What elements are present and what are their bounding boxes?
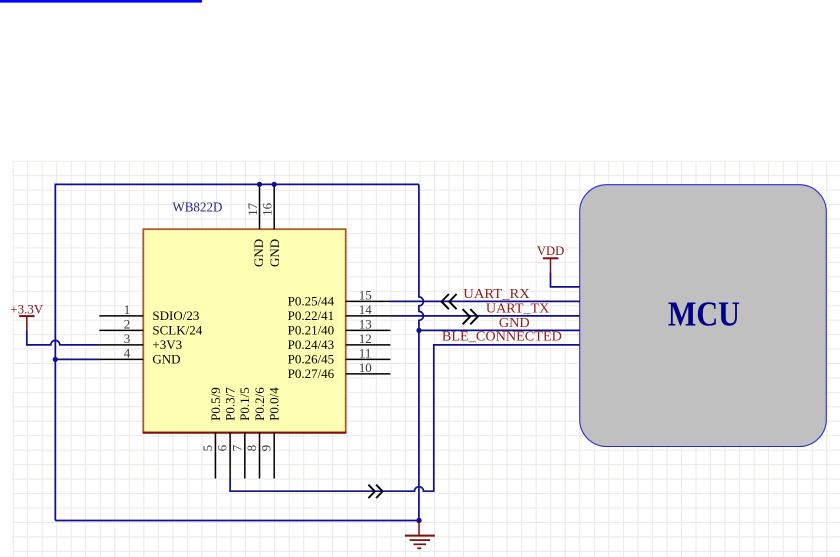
svg-text:VDD: VDD [537,243,564,258]
svg-text:GND: GND [267,239,282,267]
svg-text:11: 11 [359,346,372,361]
pin 1 stub [99,315,143,317]
power port +3.3V symbol [19,316,34,331]
wire UART_RX [390,300,579,302]
svg-text:SCLK/24: SCLK/24 [152,323,202,338]
pin 4 stub [99,358,143,360]
svg-text:3: 3 [124,331,131,346]
pin 11 stub [346,358,391,360]
svg-text:9: 9 [259,445,274,452]
svg-text:MCU: MCU [668,294,740,333]
svg-text:P0.26/45: P0.26/45 [288,352,335,367]
svg-text:P0.24/43: P0.24/43 [288,337,335,352]
pin 5 stub [214,433,216,479]
wire BLE_CONNECTED from MCU down and to pin 6 [230,345,580,491]
svg-text:GND: GND [499,315,530,330]
pin 6 stub [229,433,231,479]
wire GND left vertical [54,184,56,521]
svg-text:UART_RX: UART_RX [463,286,530,301]
MCU sheet block U2 [580,185,827,447]
svg-text:16: 16 [260,202,275,216]
svg-text:SDIO/23: SDIO/23 [152,308,199,323]
pin 15 stub [346,300,391,302]
power port VDD symbol [543,258,559,274]
svg-text:2: 2 [124,317,131,332]
pin 17 stub [259,184,261,229]
svg-text:P0.1/5: P0.1/5 [237,387,252,421]
svg-text:WB822D: WB822D [172,200,222,215]
wire GND pin 4 [55,358,99,360]
component U1 bottom shadow edge [143,432,347,434]
junction dot ground bottom [416,518,421,523]
pin 3 stub [99,344,143,346]
svg-text:17: 17 [245,202,260,216]
pin 7 stub [244,433,246,479]
svg-text:5: 5 [200,445,215,452]
svg-text:GND: GND [251,239,266,267]
svg-text:P0.21/40: P0.21/40 [288,323,335,338]
svg-text:P0.25/44: P0.25/44 [288,294,335,309]
svg-text:BLE_CONNECTED: BLE_CONNECTED [442,329,562,344]
pin 13 stub [346,329,391,331]
pin 8 stub [259,433,261,479]
svg-text:15: 15 [359,288,372,303]
sheet entry chevron << on UART_RX [442,294,457,309]
svg-text:7: 7 [229,444,244,451]
wire +3.3V to pin 3 with hop [27,330,100,345]
sheet entry chevron >> on BLE_CONNECTED [368,485,382,498]
svg-text:P0.27/46: P0.27/46 [288,366,335,381]
pin 12 stub [346,344,391,346]
pin 16 stub [273,184,275,229]
wire VDD to MCU [551,273,580,287]
pin 2 stub [99,329,143,331]
svg-text:P0.2/6: P0.2/6 [252,387,267,421]
component U1 WB822D body [143,229,345,432]
pin 14 stub [346,315,391,317]
svg-text:13: 13 [359,317,372,332]
hyperlink underline top-left [0,0,202,3]
svg-text:1: 1 [124,302,131,317]
svg-text:GND: GND [152,352,180,367]
svg-text:P0.3/7: P0.3/7 [223,387,238,421]
wire GND top horizontal [55,183,419,185]
svg-text:6: 6 [215,444,230,451]
svg-text:8: 8 [244,445,259,452]
sheet grid [13,161,840,557]
svg-text:+3V3: +3V3 [152,337,182,352]
wire GND bottom horizontal [55,520,419,522]
junction dot pin16/top wire [272,182,277,187]
svg-text:P0.22/41: P0.22/41 [288,308,335,323]
svg-text:14: 14 [359,302,373,317]
wire UART_TX [390,315,579,317]
junction dot GND pin4 [53,357,58,362]
pin 9 stub [273,433,275,479]
svg-text:10: 10 [359,360,372,375]
junction dot pin17/top wire [257,182,262,187]
svg-text:12: 12 [359,331,372,346]
junction dot GND right [416,328,421,333]
wire GND right vertical with hops over UART wires [419,184,424,520]
svg-text:P0.5/9: P0.5/9 [208,387,223,421]
sheet entry chevron >> on UART_TX [463,309,478,324]
wire GND to MCU [419,329,580,331]
ground symbol [405,522,435,548]
svg-text:4: 4 [124,346,131,361]
pin 10 stub [346,373,391,375]
svg-text:+3.3V: +3.3V [10,301,44,316]
svg-text:UART_TX: UART_TX [486,301,550,316]
svg-text:P0.0/4: P0.0/4 [267,387,282,421]
